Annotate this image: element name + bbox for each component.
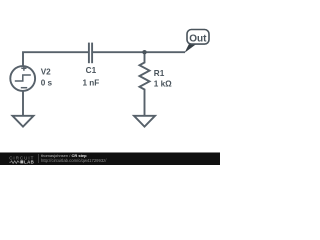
svg-text:0 s: 0 s — [41, 78, 53, 87]
svg-text:LAB: LAB — [24, 160, 34, 165]
svg-text:Out: Out — [189, 33, 207, 44]
svg-text:1 kΩ: 1 kΩ — [154, 79, 172, 88]
svg-text:V2: V2 — [41, 67, 51, 76]
svg-text:1 nF: 1 nF — [82, 79, 99, 88]
svg-text:R1: R1 — [154, 69, 165, 78]
svg-text:http://circuitlab.com/c/qw4172: http://circuitlab.com/c/qw4172993z/ — [41, 158, 107, 163]
svg-text:C1: C1 — [86, 66, 97, 75]
